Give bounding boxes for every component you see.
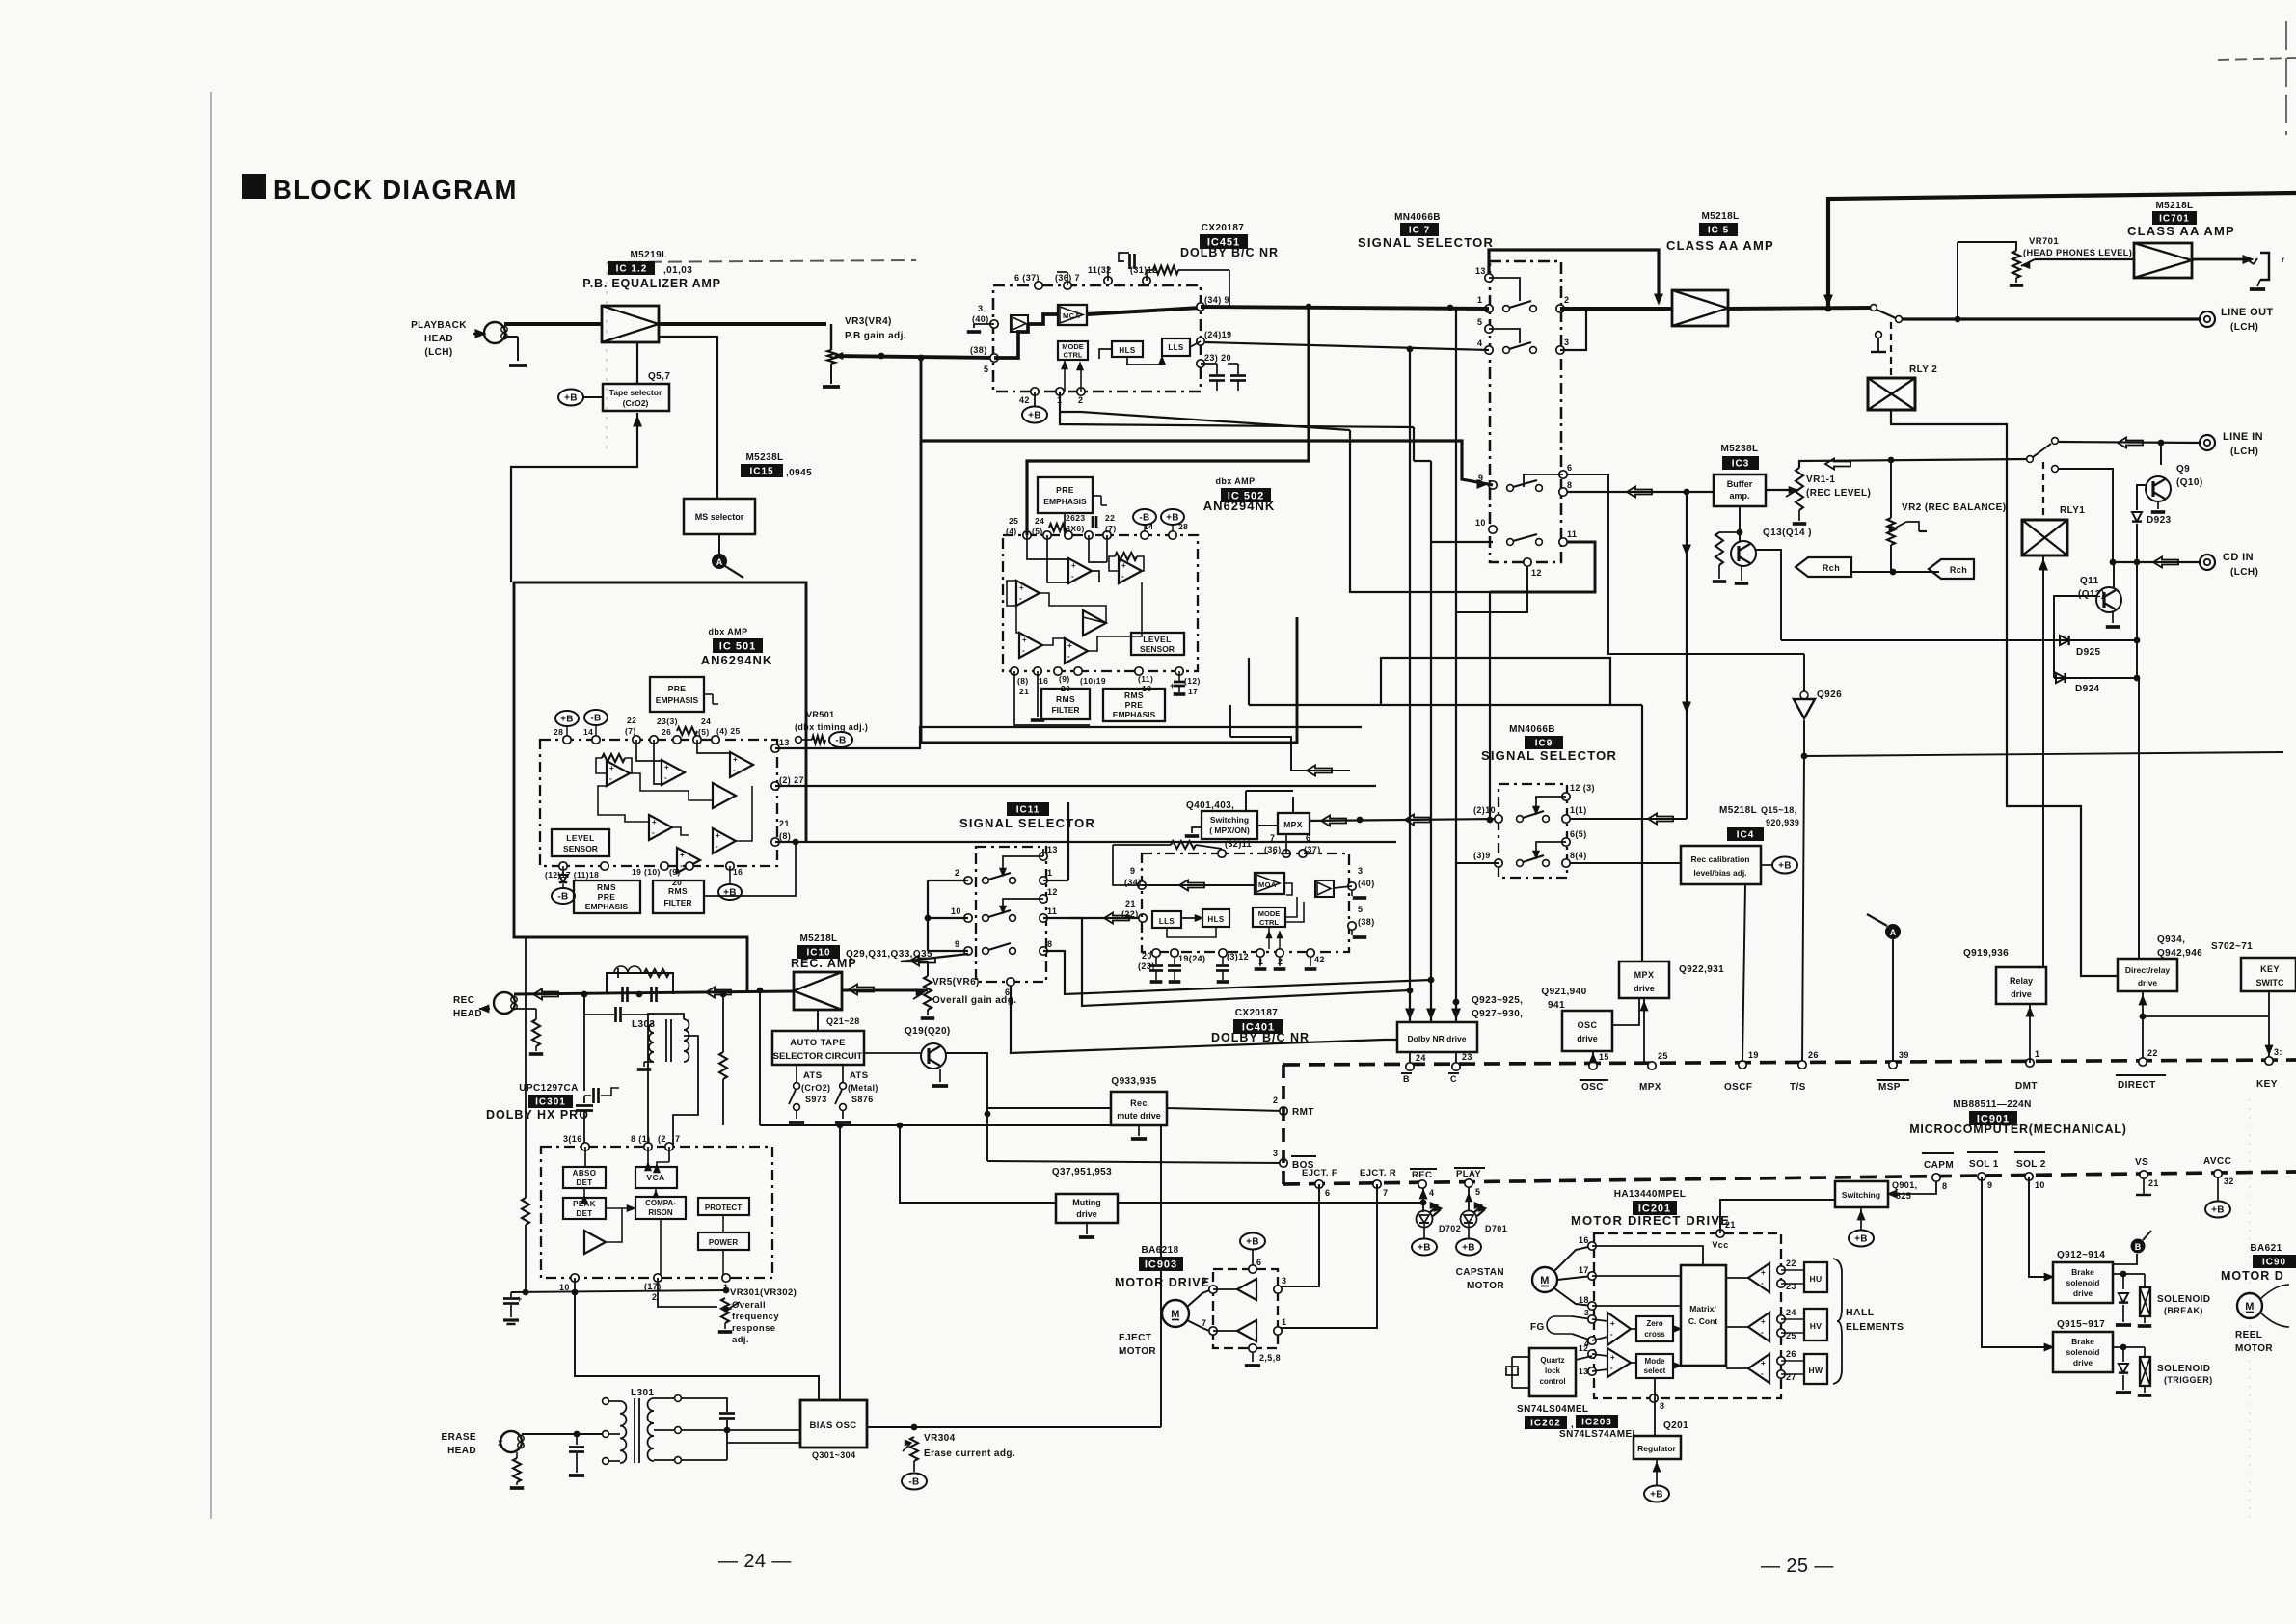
block LLS in IC401 (1152, 911, 1181, 928)
internal wires IC301 (584, 1147, 586, 1167)
wire pin3 jog to main line (1560, 311, 1586, 350)
block BIAS OSC (800, 1400, 867, 1448)
block Relay drive (1996, 967, 2046, 1004)
connector CD IN (LCH) (2200, 555, 2215, 570)
block Switching MPX/ON (1202, 811, 1257, 839)
+B above IC903 (1240, 1233, 1265, 1250)
wire erase head to L301 (522, 1433, 606, 1435)
svg-text:Erase current adg.: Erase current adg. (924, 1448, 1015, 1459)
svg-text:VR301(VR302): VR301(VR302) (730, 1287, 797, 1298)
svg-text:AN6294NK: AN6294NK (701, 653, 772, 667)
wires LLS HLS mode ctrl internal (1099, 349, 1112, 359)
op-amp IC10 rec amp box (794, 972, 842, 1010)
svg-text:DOLBY HX PRO: DOLBY HX PRO (486, 1108, 589, 1122)
wire lattice vertical V1462 (1409, 349, 1411, 1022)
wire junction to L303 cap (583, 994, 585, 1015)
svg-text:Q912~914: Q912~914 (2057, 1250, 2105, 1260)
+B under switching (1860, 1207, 1862, 1230)
svg-text:CLASS AA AMP: CLASS AA AMP (2127, 224, 2235, 238)
svg-text:21: 21 (1125, 899, 1136, 908)
svg-text:8: 8 (1660, 1401, 1664, 1411)
block Rec mute drive (1111, 1092, 1167, 1125)
eject motor (1162, 1300, 1189, 1327)
svg-text:RMS: RMS (1056, 694, 1075, 704)
svg-text:8 (1): 8 (1) (631, 1134, 651, 1144)
svg-text:PRE: PRE (598, 892, 616, 902)
block RMS FILTER IC501 (653, 880, 704, 913)
svg-text:25: 25 (1658, 1051, 1668, 1061)
wire OSC pin to OSC drive (1592, 1051, 1594, 1062)
svg-text:Q927~930,: Q927~930, (1472, 1009, 1523, 1019)
wire pin13 to IC11 area (775, 727, 1362, 748)
svg-text:(40): (40) (1358, 879, 1375, 888)
capstan motor leads (1554, 1246, 1592, 1271)
block Direct/relay drive (2118, 959, 2177, 991)
wire horizontal y731 (1249, 704, 1642, 706)
svg-text:24: 24 (1416, 1053, 1426, 1063)
svg-text:+: + (664, 763, 669, 771)
svg-text:PLAY: PLAY (1456, 1169, 1481, 1179)
op-amps inside IC502 (1068, 558, 1092, 583)
pin 1(1) of IC9 (1562, 815, 1570, 823)
caps below pin 23)20 (1201, 363, 1217, 365)
long feedback line top right (1828, 193, 2296, 309)
svg-text:8: 8 (1567, 480, 1572, 490)
svg-text:Q922,931: Q922,931 (1679, 964, 1724, 975)
pin 25 MPX (1648, 1062, 1656, 1069)
svg-text:M5218L: M5218L (1701, 211, 1739, 222)
svg-text:EMPHASIS: EMPHASIS (585, 902, 629, 911)
pins bottom row IC401 (1152, 949, 1160, 957)
svg-text:KEY: KEY (2260, 964, 2280, 974)
svg-text:16: 16 (1579, 1235, 1589, 1245)
IC tag IC1,2 (608, 261, 655, 275)
block Switching Q901 (1835, 1181, 1888, 1207)
svg-text:(CrO2): (CrO2) (623, 398, 649, 408)
svg-text:Zero: Zero (1646, 1319, 1662, 1328)
wire PRE EMPHASIS to pin row (1064, 513, 1066, 535)
ground at jack (2250, 287, 2265, 291)
svg-text:Q301~304: Q301~304 (812, 1450, 856, 1460)
svg-text:IC90: IC90 (2262, 1258, 2286, 1268)
wire IC7 pin6 to Q926 loop (1567, 474, 1797, 654)
svg-text:— 25 —: — 25 — (1761, 1556, 1834, 1577)
wire pin 21 to RMS filter loop (704, 842, 796, 896)
svg-text:+B: +B (1778, 861, 1792, 872)
switch in IC7 pins 4-3 (1503, 347, 1510, 354)
svg-text:26: 26 (662, 727, 671, 737)
svg-text:+: + (1019, 583, 1024, 592)
svg-text:MN4066B: MN4066B (1394, 212, 1441, 223)
svg-text:+B: +B (1166, 513, 1179, 524)
svg-text:-B: -B (1139, 513, 1149, 524)
svg-text:DOLBY B/C NR: DOLBY B/C NR (1180, 246, 1279, 259)
wire mode select down to regulator (1654, 1378, 1656, 1436)
svg-text:CAPSTAN: CAPSTAN (1456, 1267, 1504, 1278)
svg-text:VR3(VR4): VR3(VR4) (845, 316, 892, 327)
svg-text:BLOCK DIAGRAM: BLOCK DIAGRAM (273, 175, 518, 204)
pin 13 of IC7 (1485, 274, 1493, 282)
svg-text:24: 24 (1035, 516, 1044, 526)
svg-text:SELECTOR CIRCUIT: SELECTOR CIRCUIT (773, 1051, 863, 1062)
svg-text:2,5,8: 2,5,8 (1259, 1353, 1281, 1363)
svg-text:ELEMENTS: ELEMENTS (1846, 1321, 1904, 1333)
IC9 outer loop box (1381, 658, 1610, 705)
svg-text:(7): (7) (625, 726, 636, 736)
+B under regulator (1656, 1459, 1658, 1485)
svg-text:16: 16 (1039, 676, 1048, 686)
pins 26 27 HW (1777, 1357, 1785, 1365)
wire lattice vertical V1484 (1430, 461, 1432, 1022)
svg-text:+: + (716, 831, 720, 840)
IC901 dashed box bottom edge (1283, 1172, 2296, 1184)
svg-text:RLY1: RLY1 (2060, 505, 2085, 516)
svg-text:ATS: ATS (803, 1070, 823, 1081)
diode at solenoid trigger (2122, 1347, 2124, 1362)
IC tag IC501 (713, 638, 763, 653)
bottom pins EJCT.F EJCT.R REC PLAY (1315, 1180, 1323, 1188)
svg-text:(40): (40) (972, 314, 989, 324)
svg-text:LINE IN: LINE IN (2223, 431, 2263, 443)
block POWER (698, 1232, 749, 1250)
svg-text:1: 1 (2035, 1049, 2039, 1059)
svg-text:CTRL: CTRL (1064, 351, 1083, 360)
pin 7(36) of IC401 (1283, 850, 1290, 857)
wire pin12/11 routing right (1068, 918, 1409, 1006)
svg-text:IC 501: IC 501 (719, 641, 756, 653)
svg-text:Brake: Brake (2071, 1267, 2094, 1277)
svg-text:PRE: PRE (668, 684, 687, 693)
wire brake drive 2 output (2113, 1346, 2145, 1348)
wire horizontal y849 MPX to IC9 (1309, 819, 1499, 821)
cap under erase wire (576, 1434, 578, 1445)
wire D925 junction down to direct/relay drive (2138, 678, 2140, 959)
block HV (1804, 1309, 1827, 1340)
wire pin 6 down to Dolby NR drive line (1011, 986, 1397, 1053)
dashed link switch to RLY2 (1890, 322, 1892, 378)
svg-text:4: 4 (1429, 1188, 1434, 1198)
svg-text:M5218L: M5218L (1719, 805, 1757, 816)
page corner bracket top-left (608, 260, 916, 262)
svg-text:ABSO: ABSO (573, 1169, 597, 1177)
svg-text:A: A (1890, 928, 1897, 937)
svg-text:IC3: IC3 (1732, 459, 1750, 470)
ground under Q9 (2157, 501, 2159, 509)
pin 2 of IC11 (964, 877, 972, 884)
pin 39 MSP (1889, 1061, 1897, 1069)
ATS switch CrO2 (796, 1065, 797, 1082)
svg-text:HLS: HLS (1207, 915, 1224, 924)
wire IC301 pin 10 to bias osc (575, 1292, 819, 1400)
wire SOL2 to brake solenoid drive 1 (2029, 1177, 2053, 1277)
svg-text:B: B (1403, 1074, 1410, 1084)
svg-text:(8): (8) (779, 831, 791, 841)
pin 6(5) of IC9 (1562, 838, 1570, 846)
wire EQ amp output main PB line (659, 322, 826, 326)
IC9 dashed boundary box (1499, 784, 1567, 878)
svg-text:+: + (652, 818, 657, 826)
wires mode ctrl pins up (1064, 360, 1066, 392)
IC903 dashed box (1213, 1269, 1278, 1348)
svg-text:VR304: VR304 (924, 1433, 956, 1444)
cap and ground above IC451 (1107, 266, 1109, 281)
wire MPX drive top (1641, 953, 1643, 961)
pins IC903 (1209, 1286, 1217, 1293)
block LEVEL SENSOR IC502 (1131, 633, 1184, 655)
svg-text:12 (3): 12 (3) (1570, 783, 1595, 793)
svg-text:M: M (1540, 1275, 1550, 1286)
svg-text:MOTOR D: MOTOR D (2221, 1269, 2284, 1283)
ground under rec mute drive (1138, 1125, 1140, 1136)
internal wiring IC501 (636, 740, 662, 761)
pins top row IC502 (1023, 531, 1031, 539)
svg-text:S876: S876 (851, 1095, 874, 1104)
IC tag IC301 (528, 1095, 573, 1108)
svg-text:PRE: PRE (1125, 700, 1144, 710)
svg-text:drive: drive (2138, 978, 2158, 988)
pin 10 of IC11 (964, 914, 972, 922)
ground at switching block (1192, 827, 1202, 833)
pin 21(8) IC501 (771, 838, 779, 846)
svg-text:MOTOR: MOTOR (1119, 1346, 1156, 1357)
wire muting drive to REC pin (1118, 1202, 1423, 1204)
svg-text:7: 7 (675, 1134, 680, 1144)
pin 8(4) of IC9 (1562, 859, 1570, 867)
LED D702 (1422, 1203, 1424, 1212)
IC tags IC202 IC203 (1525, 1416, 1567, 1429)
ground under playback head (509, 364, 527, 367)
svg-text:6: 6 (1567, 463, 1572, 473)
svg-text:KEY: KEY (2256, 1079, 2278, 1090)
svg-text:11: 11 (1567, 529, 1577, 539)
diode D923 (2132, 512, 2142, 522)
IC502 outer solid box (921, 358, 1297, 743)
wire EJCT.R down to motor drive (1278, 1184, 1377, 1328)
svg-text:42: 42 (1314, 955, 1325, 964)
svg-text:SWITC: SWITC (2256, 978, 2284, 988)
pins 42 1 2 of IC451 (1031, 388, 1039, 395)
svg-text:+: + (1022, 636, 1027, 644)
svg-text:IC11: IC11 (1016, 805, 1040, 816)
wire IC7 pin8 to buffer amp (1567, 491, 1714, 493)
svg-text:PLAYBACK: PLAYBACK (411, 320, 467, 331)
IC tag IC5 (1699, 223, 1738, 236)
svg-text:VR1-1: VR1-1 (1806, 474, 1835, 485)
svg-text:EJCT. R: EJCT. R (1360, 1168, 1396, 1178)
IC901 dashed box top edge (1283, 1060, 2296, 1065)
pin 23 C (1452, 1063, 1460, 1070)
svg-text:C: C (1450, 1074, 1457, 1084)
svg-text:Direct/relay: Direct/relay (2125, 965, 2171, 975)
svg-text:select: select (1644, 1367, 1666, 1375)
svg-text:HU: HU (1809, 1274, 1822, 1284)
switch line-in (2027, 456, 2034, 463)
LED D701 (1468, 1187, 1470, 1211)
svg-text:LLS: LLS (1159, 917, 1175, 926)
svg-text:IC301: IC301 (535, 1097, 566, 1108)
pin 11 of IC11 (1040, 914, 1047, 922)
svg-text:2: 2 (1564, 295, 1569, 305)
wire IC7 pin 10 line down-left (1431, 541, 1493, 543)
svg-text:VR701: VR701 (2029, 236, 2059, 247)
block AUTO TAPE SELECTOR CIRCUIT (772, 1031, 864, 1065)
svg-text:(2) 27: (2) 27 (779, 775, 804, 785)
wire MPX pin to MPX drive (1643, 998, 1645, 1062)
svg-text:Q21~28: Q21~28 (826, 1016, 860, 1026)
switch IC9 bottom (1517, 860, 1524, 867)
svg-text:RMS: RMS (597, 882, 616, 892)
pin 19 OSCF (1739, 1061, 1746, 1069)
svg-text:-: - (1610, 1330, 1613, 1339)
svg-text:solenoid: solenoid (2066, 1347, 2100, 1357)
svg-text:REC. AMP: REC. AMP (791, 957, 857, 970)
svg-text:MOTOR: MOTOR (1467, 1281, 1504, 1291)
svg-text:drive: drive (2073, 1358, 2093, 1367)
L303 secondary wires down to IC301 (648, 1014, 684, 1147)
wire MOA to pin 7(36) region (1284, 883, 1292, 895)
ground at pin 3(40) (974, 323, 994, 325)
svg-text:23(3): 23(3) (657, 717, 678, 726)
switch in IC7 pins 1-2 (1503, 306, 1510, 312)
-B +B ovals IC502 (1133, 509, 1156, 525)
IC tag IC451 (1200, 234, 1248, 249)
svg-text:Muting: Muting (1072, 1198, 1101, 1207)
pointed box Rch right (1929, 559, 1974, 579)
svg-text:2: 2 (1078, 395, 1083, 405)
svg-text:Regulator: Regulator (1637, 1444, 1676, 1453)
svg-text:Mode: Mode (1645, 1357, 1665, 1366)
wires LLS-HLS mode internal IC401 (1181, 917, 1202, 919)
svg-text:7: 7 (1202, 1318, 1206, 1328)
svg-text:+B: +B (1854, 1234, 1868, 1245)
svg-text:RMS: RMS (1124, 690, 1144, 700)
pins 22 23 HU (1777, 1266, 1785, 1274)
svg-text:10: 10 (951, 907, 961, 916)
switch in IC7 pins 10-11 (1507, 539, 1514, 546)
pins 12 13 of IC201 (1588, 1350, 1596, 1358)
svg-text:23) 20: 23) 20 (1204, 353, 1231, 363)
wire pin 8 routing right (1043, 951, 1431, 994)
wire pin 13 top to routing (1042, 849, 1044, 856)
svg-text:HA13440MPEL: HA13440MPEL (1614, 1189, 1686, 1200)
svg-text:BA621: BA621 (2250, 1243, 2282, 1254)
svg-text:24: 24 (701, 717, 711, 726)
pin (2)7 of IC301 (665, 1143, 673, 1150)
svg-text:IC203: IC203 (1581, 1418, 1612, 1428)
svg-text:lock: lock (1545, 1367, 1561, 1375)
capstan motor (1532, 1267, 1557, 1292)
wire pin9 to VR5 with arrow (901, 954, 968, 961)
wire rec amp output to rec head (514, 991, 794, 994)
IC501 dashed boundary box (540, 740, 777, 866)
svg-text:Q15~18,: Q15~18, (1761, 805, 1797, 815)
pins 16 17 18 of IC201 (1588, 1242, 1596, 1250)
pins 3 4 of IC201 (1588, 1315, 1596, 1323)
wire pin (17)2 to VR301 wiper (658, 1278, 717, 1307)
svg-text:FILTER: FILTER (663, 898, 691, 907)
IC451 dashed boundary box (993, 285, 1201, 392)
wire to LINE OUT connector (1902, 317, 2200, 320)
svg-text:-B: -B (590, 714, 601, 724)
svg-text:Q401,403,: Q401,403, (1186, 800, 1234, 811)
svg-text:,0945: ,0945 (786, 468, 812, 478)
svg-text:(REC LEVEL): (REC LEVEL) (1806, 488, 1871, 499)
wires matrix to hall amps (1726, 1277, 1748, 1279)
pin 6(37) of IC451 (1035, 282, 1042, 289)
switch IC11 9-8 (983, 948, 989, 955)
svg-text:2623: 2623 (1066, 513, 1086, 523)
internal link pin13 (1489, 278, 1520, 301)
svg-text:42: 42 (1019, 395, 1030, 405)
svg-text:Q934,: Q934, (2157, 934, 2185, 945)
block HW (1804, 1354, 1827, 1384)
pin 6 of IC7 (1559, 471, 1567, 478)
svg-text:13: 13 (779, 738, 790, 747)
op-amp mode in IC201 (1607, 1348, 1631, 1377)
feedback resistor IC501 (602, 754, 625, 762)
svg-text:Overall: Overall (732, 1300, 766, 1311)
IC tag IC11 (1007, 802, 1049, 816)
pin 4 of IC7 (1485, 346, 1493, 354)
wire T/S vertical (1801, 1065, 1803, 1066)
cap between pins 26-22 (1092, 516, 1094, 528)
svg-text:10: 10 (2035, 1180, 2045, 1190)
svg-text:21: 21 (779, 819, 790, 828)
block Brake solenoid drive 1 (2053, 1262, 2113, 1303)
wire BOS line (987, 1161, 1283, 1163)
svg-text:CX20187: CX20187 (1235, 1008, 1279, 1018)
svg-text:2: 2 (652, 1292, 657, 1302)
svg-text:(LCH): (LCH) (2230, 567, 2258, 578)
IC301 dashed boundary box (541, 1147, 772, 1278)
block Dolby NR drive (1397, 1022, 1477, 1052)
svg-text:M5218L: M5218L (2155, 201, 2193, 211)
svg-text:3: 3 (1564, 338, 1569, 347)
svg-text:3(16: 3(16 (563, 1134, 582, 1144)
pointed box Rch left (1796, 557, 1851, 577)
IC tag IC9 (1525, 736, 1563, 749)
svg-text:MOTOR DRIVE: MOTOR DRIVE (1115, 1276, 1210, 1289)
svg-text:PROTECT: PROTECT (705, 1204, 742, 1212)
svg-text:dbx AMP: dbx AMP (1216, 476, 1256, 486)
svg-text:Switching: Switching (1210, 815, 1249, 825)
svg-text:amp.: amp. (1729, 491, 1749, 501)
svg-text:26: 26 (1786, 1349, 1796, 1359)
svg-text:HEAD: HEAD (453, 1009, 482, 1019)
svg-text:(TRIGGER): (TRIGGER) (2164, 1375, 2213, 1385)
svg-text:COMPA-: COMPA- (645, 1199, 676, 1207)
svg-text:RISON: RISON (648, 1208, 673, 1217)
wire switching to MPX (1257, 825, 1278, 826)
wire Q11 base to diode row (2054, 596, 2096, 640)
filter network on rec line (581, 991, 588, 998)
svg-text:CD IN: CD IN (2223, 552, 2254, 563)
svg-text:EJCT. F: EJCT. F (1302, 1168, 1337, 1178)
wire IC502 to main line (1027, 307, 1309, 535)
svg-text:22: 22 (1786, 1259, 1796, 1268)
svg-text:CLASS AA AMP: CLASS AA AMP (1666, 238, 1774, 253)
svg-text:dbx AMP: dbx AMP (709, 627, 748, 636)
svg-text:9: 9 (1202, 1276, 1206, 1286)
ground under muting drive (1086, 1223, 1088, 1234)
svg-text:920,939: 920,939 (1766, 818, 1799, 827)
svg-text:(3)9: (3)9 (1473, 851, 1491, 860)
svg-text:(9): (9) (669, 867, 681, 877)
svg-text:drive: drive (1577, 1034, 1598, 1043)
svg-text:HV: HV (1810, 1321, 1823, 1331)
IC tag IC401 (1233, 1019, 1283, 1034)
solenoid trigger coil (2144, 1347, 2146, 1357)
